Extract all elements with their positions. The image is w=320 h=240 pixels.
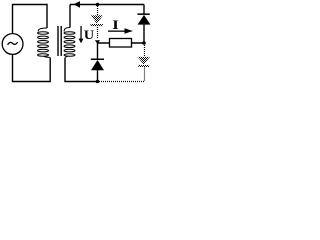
wire: right branch through D3	[143, 5, 145, 44]
resistor R (load)	[110, 39, 132, 48]
diode D4 cathode bar (dithered)	[138, 65, 149, 67]
node A junction dot	[96, 3, 100, 7]
diode D2 cathode bar	[91, 59, 104, 61]
svg-text:I: I	[112, 19, 119, 32]
wire: right dotted branch through D4	[144, 45, 146, 82]
current arrowhead on dotted branch (pointing down)	[95, 40, 100, 44]
diode D2 triangle (pointing up)	[91, 60, 104, 70]
current arrow I shaft	[108, 31, 125, 32]
node B junction dot	[96, 80, 100, 84]
voltage arrow U head (pointing down)	[79, 39, 84, 44]
wire: dotted branch top (node A to D1)	[97, 6, 99, 15]
current arrow I head (pointing right)	[125, 28, 134, 33]
AC source G1	[2, 34, 23, 55]
wire: secondary top lead	[69, 5, 71, 28]
current arrow on top rail (pointing left)	[74, 1, 81, 8]
wire: dotted branch (D1 to arrowhead)	[97, 27, 99, 39]
diode D3 cathode bar	[137, 13, 149, 15]
diode D3 triangle (pointing up)	[138, 15, 151, 25]
wire: bottom rail dotted	[99, 81, 145, 83]
transformer core	[57, 26, 59, 56]
diode D1 cathode bar (dithered)	[90, 24, 103, 26]
voltage arrow U shaft	[80, 26, 81, 39]
wire: load rail	[98, 42, 145, 44]
diode D1 triangle (dithered, pointing down)	[91, 15, 103, 23]
transformer primary coil L1	[38, 28, 51, 58]
node C junction dot	[142, 41, 146, 45]
wire: D2 branch	[97, 43, 99, 82]
diode D4 triangle (dithered, pointing down)	[137, 57, 150, 65]
wire: primary loop top	[13, 5, 48, 34]
transformer secondary coil L2	[64, 28, 75, 59]
svg-text:U: U	[84, 28, 95, 42]
AC source tilde	[8, 42, 18, 45]
wire: top rail	[70, 4, 144, 6]
wire: secondary bottom lead + bottom rail solid	[65, 58, 98, 82]
wire: primary loop bottom	[13, 55, 51, 82]
